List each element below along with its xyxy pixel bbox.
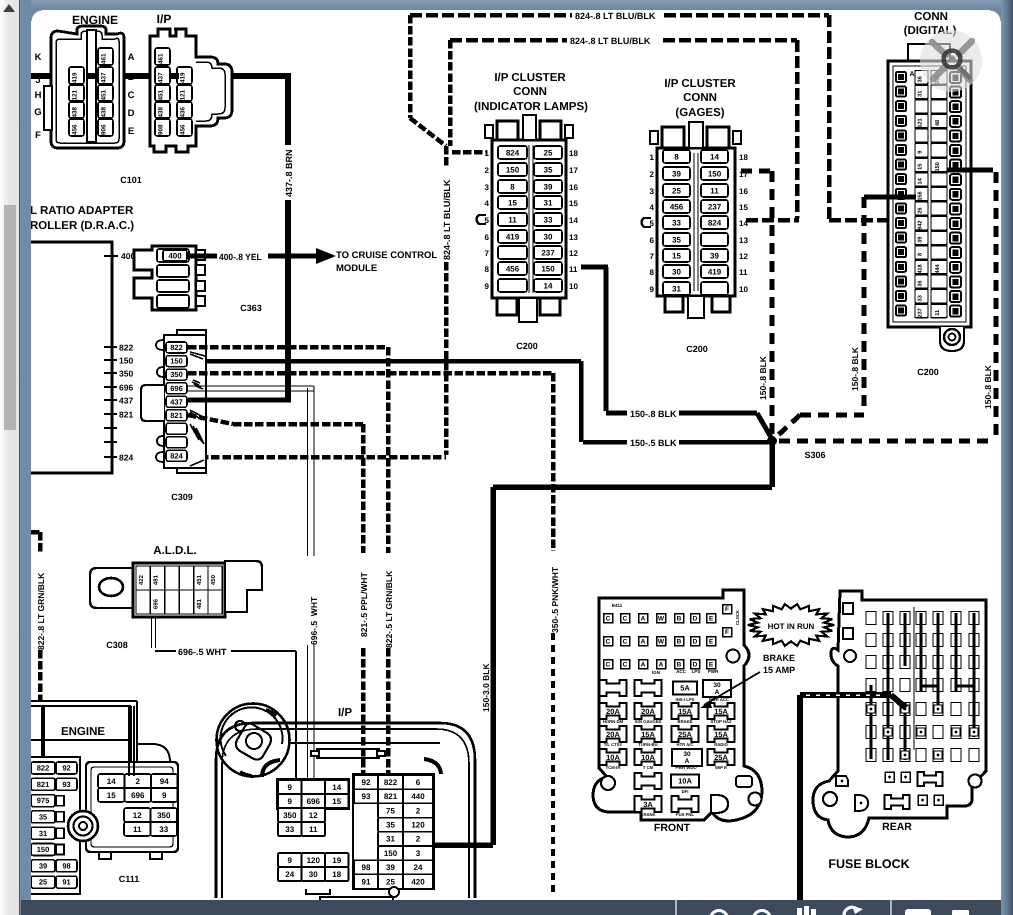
label 696-.5 WHT: [178, 647, 227, 658]
svg-text:A: A: [641, 615, 646, 623]
connector C308 ALDL shell: [90, 561, 262, 617]
svg-text:(GAGES): (GAGES): [675, 105, 724, 118]
wire 150-3.0 BLK from S306 down to I/P: [398, 441, 772, 851]
svg-text:K: K: [35, 51, 42, 62]
svg-text:437: 437: [100, 72, 107, 83]
label FRONT: [654, 821, 691, 833]
REAR fuse element grid: [866, 607, 979, 762]
svg-text:418: 418: [916, 264, 923, 274]
svg-text:150-.8 BLK: 150-.8 BLK: [630, 409, 677, 420]
svg-text:821: 821: [119, 410, 133, 420]
svg-text:6: 6: [650, 236, 655, 245]
svg-text:2: 2: [136, 776, 141, 785]
wire 350 from C309: [188, 373, 553, 892]
svg-text:11: 11: [710, 186, 719, 195]
svg-text:120: 120: [307, 855, 321, 864]
svg-text:BRAKE: BRAKE: [678, 719, 693, 724]
svg-text:150-.5 BLK: 150-.5 BLK: [630, 438, 677, 449]
svg-text:120: 120: [411, 820, 425, 829]
wire 150-.8 BLK from digital conn pin 156 down to S306: [774, 197, 916, 439]
svg-text:MODULE: MODULE: [336, 262, 377, 273]
svg-text:A: A: [641, 638, 646, 646]
wire 437 from C309 to vertical: [188, 398, 291, 403]
svg-text:B: B: [128, 71, 135, 82]
label 150-.8 BLK (digital drop): [850, 347, 860, 391]
svg-text:1: 1: [485, 149, 490, 158]
label C200 (digital): [917, 367, 939, 378]
svg-text:824: 824: [119, 453, 133, 463]
svg-text:A: A: [909, 70, 914, 78]
wire 824 left drop to C309: [189, 15, 446, 457]
svg-text:39: 39: [672, 169, 681, 178]
svg-text:91: 91: [362, 877, 371, 886]
svg-text:CONN: CONN: [683, 90, 717, 103]
label 150-.8 BLK (right edge): [983, 365, 993, 409]
svg-text:456: 456: [506, 264, 520, 273]
svg-text:33: 33: [159, 824, 168, 833]
svg-text:821-.5 PPL/WHT: 821-.5 PPL/WHT: [359, 572, 369, 637]
wire 150 dashed from S306 to right edge: [779, 439, 993, 444]
wire 824-.8 LT BLU/BLK second run: [450, 40, 799, 220]
svg-text:BRAKE: BRAKE: [763, 653, 795, 664]
svg-text:4: 4: [650, 203, 655, 212]
C200 digital value column inner: [915, 71, 928, 318]
svg-text:906: 906: [100, 124, 107, 135]
svg-text:35: 35: [544, 165, 553, 174]
svg-text:481: 481: [152, 575, 159, 585]
C200 gages pin 5 key bracket: [642, 218, 652, 227]
label C308: [106, 640, 128, 651]
label C111: [119, 874, 140, 885]
svg-text:14: 14: [544, 281, 553, 290]
svg-text:25A: 25A: [678, 730, 692, 739]
svg-text:36: 36: [916, 76, 923, 82]
svg-text:C: C: [606, 638, 611, 646]
svg-text:I/P CLUSTER: I/P CLUSTER: [494, 70, 566, 83]
svg-text:400: 400: [168, 251, 182, 260]
svg-text:150: 150: [37, 845, 50, 854]
svg-text:11: 11: [508, 215, 517, 224]
svg-text:30: 30: [683, 750, 690, 758]
svg-text:438: 438: [71, 107, 78, 118]
connector C200 indicator shell: [485, 115, 573, 322]
title CONN (DIGITAL): [904, 9, 957, 36]
svg-text:D: D: [693, 615, 698, 623]
svg-text:W: W: [658, 615, 665, 623]
wire 696-.5 WHT from ALDL: [152, 617, 304, 792]
svg-text:8: 8: [650, 268, 655, 277]
svg-text:30: 30: [544, 232, 553, 241]
svg-text:437: 437: [170, 397, 183, 406]
svg-text:2: 2: [416, 834, 421, 843]
svg-text:98: 98: [362, 863, 371, 872]
svg-text:33: 33: [916, 295, 923, 301]
svg-text:9: 9: [288, 855, 293, 864]
svg-text:F: F: [725, 605, 729, 613]
svg-text:12: 12: [309, 810, 318, 819]
svg-text:E: E: [709, 638, 713, 646]
svg-text:696: 696: [119, 383, 133, 393]
svg-text:13: 13: [569, 233, 578, 242]
svg-text:15A: 15A: [678, 707, 692, 716]
svg-text:C: C: [606, 661, 611, 669]
svg-text:20A: 20A: [641, 707, 655, 716]
C200 indicator pin 5 key bracket: [477, 215, 487, 224]
title A.L.D.L.: [153, 543, 196, 556]
scrollbar thumb: [4, 205, 16, 430]
label 437-.8 BRN: [284, 149, 295, 197]
C200 digital pin column (right squares): [950, 72, 961, 317]
svg-text:150-3.0 BLK: 150-3.0 BLK: [481, 663, 491, 712]
svg-text:TURN-BU: TURN-BU: [638, 742, 657, 747]
page rounded corner top-right: [990, 10, 1001, 21]
svg-text:422: 422: [138, 575, 145, 585]
HOT IN RUN starburst: [748, 604, 834, 646]
svg-text:15: 15: [739, 203, 748, 212]
svg-text:150-.8 BLK: 150-.8 BLK: [758, 356, 768, 400]
svg-text:14: 14: [710, 152, 719, 161]
svg-text:18: 18: [569, 149, 578, 158]
svg-text:696: 696: [307, 796, 321, 805]
svg-text:PWR: PWR: [708, 669, 719, 674]
C101 engine-side cavity letters A B C D E: [128, 51, 135, 136]
fuse block REAR outline: [813, 591, 986, 837]
svg-text:9: 9: [485, 282, 490, 291]
svg-text:2: 2: [650, 170, 655, 179]
svg-text:91: 91: [62, 878, 71, 887]
svg-text:B: B: [677, 615, 682, 623]
svg-text:C: C: [606, 615, 611, 623]
svg-text:31: 31: [916, 91, 923, 97]
label 824-.8 LT BLU/BLK (vertical): [442, 179, 453, 260]
svg-text:456: 456: [670, 202, 684, 211]
svg-text:121: 121: [179, 90, 186, 101]
svg-text:481: 481: [195, 599, 202, 609]
svg-text:437: 437: [119, 396, 133, 406]
svg-text:TO CRUISE CONTROL: TO CRUISE CONTROL: [336, 249, 437, 260]
svg-text:14: 14: [107, 776, 116, 785]
C363 cavity boxes with 400: [157, 249, 189, 308]
svg-text:T/L CTSY: T/L CTSY: [604, 742, 623, 747]
label 824-.8 LT BLU/BLK (second): [570, 36, 651, 47]
svg-text:C200: C200: [686, 344, 708, 355]
svg-text:821: 821: [170, 411, 183, 420]
svg-text:D: D: [128, 107, 135, 118]
svg-text:92: 92: [362, 778, 371, 787]
svg-text:25: 25: [544, 148, 553, 157]
wire 696 twisted pair from C309: [188, 386, 314, 795]
C308 ALDL cavity boxes: [136, 566, 222, 614]
svg-text:12: 12: [133, 810, 142, 819]
wire 824-.8 LT BLU/BLK upper run: [410, 15, 893, 220]
svg-text:14: 14: [332, 782, 341, 791]
svg-text:FRONT: FRONT: [654, 821, 691, 833]
svg-text:24: 24: [285, 869, 294, 878]
svg-text:696: 696: [152, 599, 159, 609]
svg-text:A: A: [685, 757, 690, 765]
svg-text:C111: C111: [119, 874, 140, 885]
svg-text:975: 975: [37, 796, 50, 805]
svg-text:98: 98: [62, 862, 71, 871]
svg-text:121: 121: [71, 90, 78, 101]
svg-text:821: 821: [384, 792, 398, 801]
svg-text:419: 419: [71, 72, 78, 83]
svg-text:10A: 10A: [678, 777, 692, 786]
wire 822-.8 LT GRN/BLK at left edge: [31, 532, 43, 766]
svg-text:CONN: CONN: [914, 9, 948, 22]
C200 digital pin column (left squares): [896, 70, 915, 316]
svg-text:150: 150: [934, 162, 941, 172]
svg-text:6: 6: [485, 233, 490, 242]
svg-text:16: 16: [739, 187, 748, 196]
svg-text:821: 821: [37, 780, 50, 789]
label C101: [120, 175, 142, 186]
C309 wire fan marks: [190, 352, 205, 466]
svg-text:3: 3: [485, 183, 490, 192]
I/P lower-left grid: [278, 853, 349, 881]
label 350-.5 PNK/WHT: [550, 566, 560, 633]
svg-text:150: 150: [506, 165, 520, 174]
svg-text:822: 822: [119, 343, 133, 353]
svg-text:420: 420: [411, 877, 425, 886]
svg-text:25: 25: [39, 878, 48, 887]
connector C200 gages shell: [650, 122, 741, 318]
svg-text:237: 237: [708, 202, 722, 211]
C101 engine-side pin value boxes: [69, 48, 113, 136]
label 150-.8 BLK (gages drop): [758, 356, 768, 400]
wire 437 visible across C101 channels: [87, 73, 179, 79]
svg-text:RADIO: RADIO: [714, 742, 728, 747]
svg-text:20A: 20A: [606, 707, 620, 716]
connector C101 i/p-side shell: [150, 29, 232, 152]
svg-text:94: 94: [160, 776, 169, 785]
svg-text:437: 437: [157, 72, 164, 83]
svg-text:30: 30: [713, 681, 720, 689]
label 150-.5 BLK: [630, 438, 677, 449]
svg-text:B: B: [677, 661, 682, 669]
label FUSE BLOCK: [828, 857, 910, 872]
label 696-.5 WHT (vertical): [309, 596, 319, 645]
svg-text:92: 92: [62, 764, 71, 773]
label 821-.5 PPL/WHT: [359, 572, 369, 637]
watermark zoom cursor: [920, 30, 982, 92]
scrollbar track: [0, 0, 20, 915]
svg-text:C363: C363: [240, 303, 262, 314]
C200 gages pin numbers: [650, 153, 749, 294]
connector C309 shell: [141, 330, 206, 473]
wire 824 branch to indicator pin 1: [450, 40, 487, 152]
svg-text:15: 15: [916, 164, 923, 170]
svg-text:438: 438: [157, 107, 164, 118]
wire 150-.5 BLK from C309: [188, 361, 768, 442]
C309 pin value boxes: [166, 342, 187, 461]
svg-text:A: A: [659, 661, 664, 669]
C111 engine stack boxes: [28, 757, 80, 894]
svg-text:ACC: ACC: [676, 669, 686, 674]
toolbar icons: [0, 900, 1013, 915]
svg-text:436: 436: [179, 107, 186, 118]
label C200 (gages): [686, 344, 708, 355]
svg-text:C200: C200: [917, 367, 939, 378]
label ENGINE (bulkhead): [61, 724, 105, 737]
svg-text:I/P: I/P: [157, 12, 172, 26]
svg-text:75: 75: [386, 806, 395, 815]
REAR bottom elements: [836, 772, 943, 811]
svg-text:30: 30: [309, 869, 318, 878]
label 822-.8 LT GRN/BLK: [36, 573, 46, 650]
C111 mounting feet: [99, 851, 162, 859]
svg-text:18: 18: [332, 869, 341, 878]
svg-text:400-.8 YEL: 400-.8 YEL: [219, 252, 262, 263]
svg-text:I/P: I/P: [338, 705, 352, 718]
svg-text:350: 350: [157, 810, 171, 819]
svg-text:8: 8: [485, 265, 490, 274]
DRAC pin tick 400: [104, 251, 135, 261]
svg-text:15: 15: [672, 251, 681, 260]
svg-text:942: 942: [916, 220, 923, 230]
svg-text:822: 822: [384, 778, 398, 787]
I/P housing bottom tabs: [306, 887, 399, 915]
svg-text:39: 39: [710, 251, 719, 260]
label TO CRUISE CONTROL MODULE: [336, 249, 437, 273]
svg-text:39: 39: [544, 182, 553, 191]
svg-text:16: 16: [569, 183, 578, 192]
svg-text:8: 8: [510, 182, 515, 191]
svg-text:CLOCK: CLOCK: [735, 610, 740, 625]
app frame: right blue band: [1001, 0, 1013, 915]
svg-text:31: 31: [39, 829, 48, 838]
svg-text:W: W: [658, 638, 665, 646]
svg-text:(INDICATOR LAMPS): (INDICATOR LAMPS): [474, 99, 588, 112]
svg-text:822: 822: [37, 764, 50, 773]
svg-text:440: 440: [411, 792, 425, 801]
svg-text:ENGINE: ENGINE: [61, 724, 105, 737]
svg-text:12: 12: [569, 249, 578, 258]
label I/P (C101 i/p side): [157, 12, 172, 26]
C101 i/p-side pin value boxes: [155, 48, 192, 136]
svg-text:15: 15: [332, 796, 341, 805]
svg-text:451: 451: [100, 90, 107, 101]
svg-text:35: 35: [672, 235, 681, 244]
svg-text:150: 150: [384, 849, 398, 858]
svg-text:24: 24: [414, 863, 423, 872]
svg-text:F: F: [35, 129, 41, 140]
svg-text:150-.8 BLK: 150-.8 BLK: [850, 347, 860, 391]
svg-text:456: 456: [71, 124, 78, 135]
svg-text:2: 2: [485, 166, 490, 175]
label 822-.5 LT GRN/BLK: [384, 571, 394, 648]
svg-text:6: 6: [416, 778, 421, 787]
title I/P CLUSTER CONN (GAGES): [664, 76, 736, 118]
svg-text:B: B: [677, 638, 682, 646]
connector C111 shell: [86, 762, 178, 852]
C111 grid row 1-2: [98, 774, 178, 836]
svg-text:LPS: LPS: [692, 669, 701, 674]
svg-text:822: 822: [170, 343, 183, 352]
svg-text:824-.8 LT BLU/BLK: 824-.8 LT BLU/BLK: [575, 11, 656, 22]
svg-text:824: 824: [506, 148, 520, 157]
label I/P (cluster housing): [338, 705, 352, 718]
svg-text:10A: 10A: [606, 753, 620, 762]
page rounded corner top-left: [31, 10, 42, 21]
svg-text:E: E: [709, 661, 713, 669]
svg-text:156: 156: [916, 191, 923, 201]
wire drop into C111: [129, 706, 134, 776]
svg-text:I/P CLUSTER: I/P CLUSTER: [664, 76, 736, 89]
app frame: top blue band: [19, 0, 1013, 10]
label BRAKE 15 AMP with arrow: [700, 653, 795, 708]
svg-text:18: 18: [739, 153, 748, 162]
connector C200 digital shell: [888, 44, 971, 351]
svg-text:TCM-IR: TCM-IR: [606, 765, 621, 770]
svg-text:48: 48: [934, 120, 941, 126]
svg-text:31: 31: [544, 198, 553, 207]
connector C363 shell: [134, 246, 205, 310]
svg-text:150-.8 BLK: 150-.8 BLK: [983, 365, 993, 409]
wire 821 from C309: [188, 415, 377, 790]
svg-text:11: 11: [569, 265, 578, 274]
svg-text:9: 9: [162, 790, 167, 799]
wire 400-.8 YEL with arrow to cruise control: [187, 248, 336, 264]
svg-text:150: 150: [708, 169, 722, 178]
svg-text:9: 9: [288, 782, 293, 791]
svg-text:9: 9: [650, 285, 655, 294]
svg-text:26: 26: [916, 207, 923, 213]
svg-text:419: 419: [708, 267, 722, 276]
connector C101 engine-side shell: [44, 26, 124, 148]
svg-text:419: 419: [179, 72, 186, 83]
splice S306: [767, 436, 826, 460]
svg-text:G: G: [34, 106, 41, 117]
wire 822 from C309: [188, 347, 390, 779]
svg-text:350: 350: [119, 369, 133, 379]
svg-text:F: F: [725, 628, 729, 636]
svg-text:350-.5 PNK/WHT: 350-.5 PNK/WHT: [550, 566, 560, 633]
bottom toolbar: [21, 900, 1001, 915]
svg-text:696: 696: [170, 384, 183, 393]
steering column circle: [217, 704, 290, 777]
FRONT fuse rows: [600, 680, 735, 817]
svg-text:15: 15: [569, 199, 578, 208]
svg-text:WIP R: WIP R: [715, 765, 727, 770]
svg-text:696-.5 WHT: 696-.5 WHT: [178, 647, 227, 658]
svg-text:CRANK: CRANK: [640, 812, 655, 817]
svg-text:350: 350: [170, 370, 183, 379]
scrollbar up arrow: [3, 4, 15, 12]
svg-text:461: 461: [157, 53, 164, 64]
svg-text:HORN-DM: HORN-DM: [603, 719, 623, 724]
svg-text:39: 39: [39, 862, 48, 871]
svg-text:824-.8 LT BLU/BLK: 824-.8 LT BLU/BLK: [442, 179, 453, 260]
svg-text:14: 14: [739, 219, 748, 228]
C200 indicator pin value boxes: [498, 146, 562, 292]
svg-text:A: A: [715, 688, 720, 696]
svg-text:33: 33: [285, 824, 294, 833]
svg-text:12: 12: [739, 252, 748, 261]
fuse block FRONT outline: [593, 590, 762, 821]
svg-text:C: C: [623, 661, 628, 669]
wire 150-.8 BLK from indicator pin 11: [581, 267, 772, 439]
svg-text:93: 93: [62, 780, 71, 789]
svg-text:33: 33: [544, 215, 553, 224]
label 824-.8 LT BLU/BLK (upper): [575, 11, 656, 22]
label DIGITAL RATIO ADAPTER CONTROLLER (D.R.A.C.): [30, 203, 134, 231]
svg-text:C: C: [128, 89, 135, 100]
svg-text:D: D: [693, 661, 698, 669]
svg-text:E: E: [128, 125, 134, 136]
svg-text:10: 10: [569, 282, 578, 291]
label ENGINE (C101 engine side): [72, 13, 118, 27]
